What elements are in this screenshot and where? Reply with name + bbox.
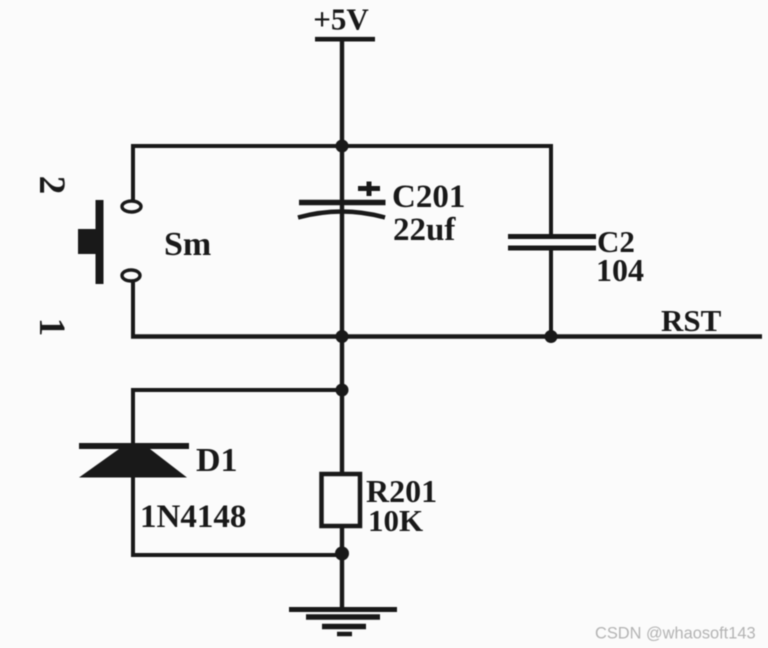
resistor R201 body	[322, 474, 361, 526]
wire C2 branch upper	[549, 144, 553, 237]
ground bar 1	[289, 607, 397, 612]
svg-text:Sm: Sm	[164, 226, 211, 263]
switch Sm button cap	[78, 229, 104, 254]
diode D1 cathode bar	[79, 443, 189, 449]
ground bar 2	[306, 614, 380, 620]
svg-text:1N4148: 1N4148	[140, 499, 246, 535]
capacitor C2 top plate	[508, 234, 596, 239]
wire C2 branch lower	[549, 249, 553, 338]
wire D1 left vertical	[131, 388, 135, 557]
node junction top rail / C201	[336, 140, 349, 153]
node junction RST / C201	[336, 330, 349, 343]
switch Sm actuator bar	[96, 200, 104, 284]
svg-text:C201: C201	[392, 179, 465, 215]
svg-text:1: 1	[31, 318, 72, 337]
node junction D1 top / main	[336, 384, 349, 397]
ground bar 4	[337, 632, 352, 637]
svg-text:104: 104	[596, 252, 644, 288]
wire top rail	[131, 144, 553, 148]
svg-text:D1: D1	[196, 442, 238, 479]
svg-text:+5V: +5V	[313, 2, 369, 37]
capacitor C201 top plate	[299, 200, 386, 206]
capacitor C2 bottom plate	[508, 246, 596, 251]
wire switch top lead	[131, 144, 135, 201]
svg-text:RST: RST	[661, 303, 722, 338]
node junction RST / C2	[545, 330, 558, 343]
svg-text:CSDN @whaosoft143: CSDN @whaosoft143	[595, 625, 756, 643]
diode D1 triangle	[79, 449, 187, 478]
svg-text:10K: 10K	[368, 503, 423, 538]
svg-text:22uf: 22uf	[393, 212, 456, 248]
node junction D1 bottom / main	[335, 547, 349, 561]
wire main vertical from R201 bottom to ground	[340, 524, 344, 610]
wire D1 top rail	[131, 388, 342, 392]
wire D1 bottom rail	[131, 553, 342, 557]
capacitor C201 plus sign	[358, 182, 380, 197]
svg-text:2: 2	[31, 176, 72, 195]
wire switch bottom lead	[131, 281, 135, 338]
power rail +5V bar	[315, 37, 375, 42]
ground bar 3	[322, 624, 366, 630]
wire RST rail	[131, 334, 762, 339]
switch Sm bottom contact	[122, 270, 140, 281]
switch Sm top contact	[122, 201, 141, 212]
wire main vertical from +5V to R201 top	[340, 39, 344, 476]
capacitor C201 curved bottom plate	[298, 212, 385, 218]
